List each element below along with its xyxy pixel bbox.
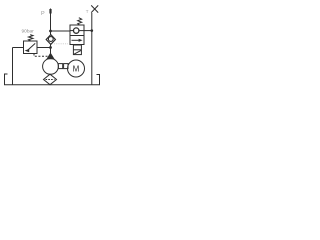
svg-text:P: P	[41, 11, 45, 17]
svg-text:M: M	[73, 64, 80, 73]
svg-text:90bar: 90bar	[22, 29, 35, 35]
svg-text:T: T	[86, 9, 89, 14]
